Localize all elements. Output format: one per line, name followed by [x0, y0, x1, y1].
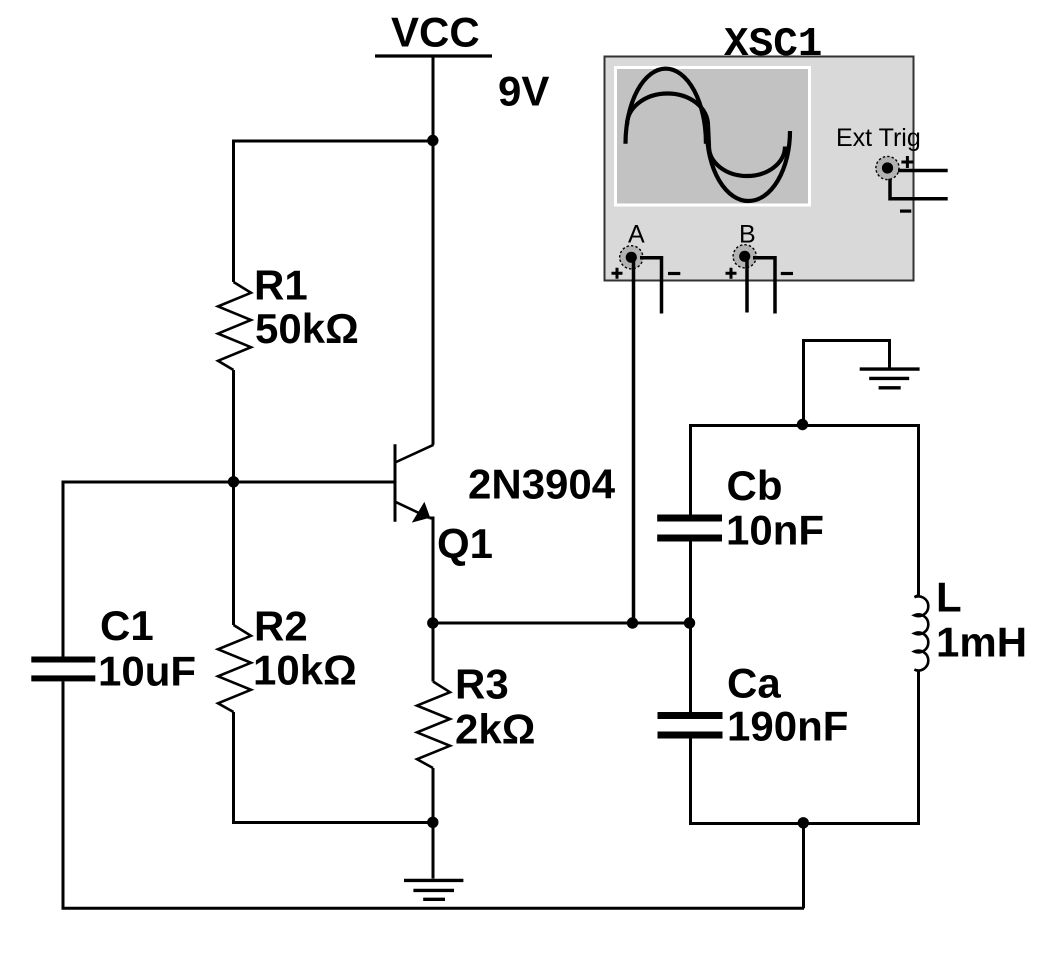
- transistor Q1 collector diagonal: [394, 445, 434, 463]
- svg-text:2kΩ: 2kΩ: [455, 706, 535, 753]
- wire tank left down to Cb: [689, 424, 692, 515]
- ground symbol top right: [860, 367, 920, 370]
- inductor L: [914, 595, 928, 671]
- wire tank top horizontal: [691, 424, 919, 427]
- scope trace small: [627, 94, 708, 126]
- svg-text:VCC: VCC: [391, 9, 480, 56]
- svg-text:Ext Trig: Ext Trig: [836, 124, 921, 152]
- svg-text:L: L: [936, 574, 962, 621]
- wire VCC stem: [432, 56, 435, 141]
- wire Cb to node: [689, 542, 692, 624]
- power VCC symbol bar: [375, 54, 492, 57]
- oscilloscope XSC1 body: [605, 57, 914, 281]
- terminal B minus sign: [781, 272, 793, 275]
- capacitor Ca: [658, 712, 723, 719]
- resistor R1: [218, 282, 251, 370]
- wire ext trig plus: [898, 169, 948, 173]
- node emitter output: [427, 617, 438, 628]
- wire channel A down to output: [632, 257, 636, 623]
- node R2 return junction: [427, 817, 438, 828]
- ground symbol under R3: [404, 879, 463, 882]
- wire base horizontal: [63, 481, 395, 484]
- wire channel A minus stub: [640, 258, 662, 314]
- svg-text:R3: R3: [455, 661, 509, 708]
- wire Ca bottom: [689, 739, 692, 826]
- wire tank right top: [917, 424, 920, 597]
- svg-text:190nF: 190nF: [727, 703, 848, 750]
- transistor Q1 emitter diagonal: [394, 501, 430, 518]
- oscilloscope screen frame: [614, 66, 811, 207]
- svg-text:Ca: Ca: [727, 660, 781, 707]
- wire R2 top from base node: [232, 482, 235, 625]
- node junction VCC: [427, 135, 438, 146]
- svg-text:2N3904: 2N3904: [468, 461, 616, 508]
- node scope A tap: [627, 617, 638, 628]
- capacitor C1: [31, 657, 95, 663]
- wire C1 bottom down left rail: [62, 681, 65, 909]
- wire top horizontal to R1 branch: [234, 140, 434, 143]
- wire tank bottom to bottom rail: [802, 824, 805, 909]
- wire left down to C1: [62, 481, 65, 658]
- wire collector up to VCC node: [432, 141, 435, 445]
- svg-text:1mH: 1mH: [936, 619, 1027, 666]
- wire tank top ground stub: [804, 341, 890, 426]
- svg-text:B: B: [739, 221, 756, 249]
- wire output horizontal: [433, 622, 691, 625]
- ext trig minus sign: [900, 210, 911, 213]
- svg-text:10kΩ: 10kΩ: [253, 647, 357, 694]
- svg-text:R1: R1: [254, 262, 308, 309]
- terminal A plus sign: [612, 268, 623, 279]
- ext trig plus sign: [901, 156, 913, 168]
- wire R2 bottom: [234, 712, 434, 823]
- capacitor Cb: [657, 515, 722, 522]
- svg-text:XSC1: XSC1: [724, 22, 822, 68]
- wire R1 bottom to base node: [232, 370, 235, 482]
- node tank top: [797, 419, 808, 430]
- svg-text:9V: 9V: [498, 68, 549, 115]
- resistor R2: [218, 625, 251, 712]
- wire tank bottom horizontal: [691, 822, 919, 825]
- wire ext trig minus hook: [890, 179, 948, 199]
- scope trace large: [626, 69, 707, 144]
- wire tank right bottom: [917, 670, 920, 826]
- resistor R3: [417, 682, 450, 769]
- wire R3 bottom: [432, 768, 435, 879]
- terminal A: [620, 246, 643, 269]
- transistor Q1 base bar: [394, 444, 397, 522]
- transistor Q1 emitter arrow: [412, 502, 430, 523]
- wire R3 top: [432, 623, 435, 682]
- svg-text:R2: R2: [254, 603, 308, 650]
- svg-text:10nF: 10nF: [726, 507, 824, 554]
- terminal A minus sign: [668, 272, 680, 275]
- node tank bottom: [798, 817, 809, 828]
- svg-text:50kΩ: 50kΩ: [255, 305, 359, 352]
- terminal B: [733, 245, 756, 268]
- node tank tap: [684, 617, 695, 628]
- wire emitter down to output node: [430, 518, 434, 623]
- node base junction: [228, 476, 239, 487]
- svg-text:Q1: Q1: [437, 520, 493, 567]
- wire channel B minus stub: [753, 258, 775, 314]
- wire bottom long horizontal: [62, 907, 805, 910]
- svg-text:10uF: 10uF: [98, 648, 196, 695]
- svg-text:Cb: Cb: [727, 462, 783, 509]
- terminal B plus sign: [726, 268, 737, 279]
- wire left branch down to R1: [232, 140, 235, 283]
- svg-text:C1: C1: [100, 602, 154, 649]
- wire node to Ca: [689, 623, 692, 713]
- svg-text:A: A: [628, 221, 645, 249]
- wire channel B plus stub: [745, 257, 749, 313]
- terminal Ext Trig: [876, 156, 899, 179]
